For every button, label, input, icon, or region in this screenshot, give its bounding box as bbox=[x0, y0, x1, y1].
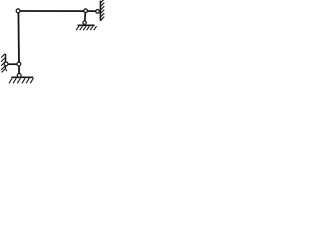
left wall support line bbox=[5, 54, 7, 69]
pin joint F (left wall pin) bbox=[4, 62, 8, 66]
right ground support line bbox=[78, 24, 95, 26]
pin joint D (right ground support pin) bbox=[83, 21, 86, 24]
pin joint G (left ground support pin) bbox=[17, 74, 21, 78]
right wall support line bbox=[99, 1, 101, 21]
right hanger member B-D bbox=[84, 11, 87, 23]
pin joint C (right wall pin) bbox=[96, 10, 100, 14]
left ground hatching bbox=[9, 78, 33, 83]
right wall hatching bbox=[101, 0, 105, 20]
left column member A-E-G bbox=[17, 11, 20, 76]
left ground support line bbox=[11, 76, 33, 78]
left wall hatching bbox=[1, 54, 7, 73]
pin joint E (left junction) bbox=[17, 62, 21, 66]
right ground hatching bbox=[76, 26, 97, 30]
pin joint B (top-right on beam) bbox=[84, 9, 88, 13]
pin joint A (top-left corner) bbox=[16, 9, 20, 13]
left tie member F-E bbox=[6, 63, 19, 65]
top beam member A-B-C bbox=[18, 10, 98, 12]
